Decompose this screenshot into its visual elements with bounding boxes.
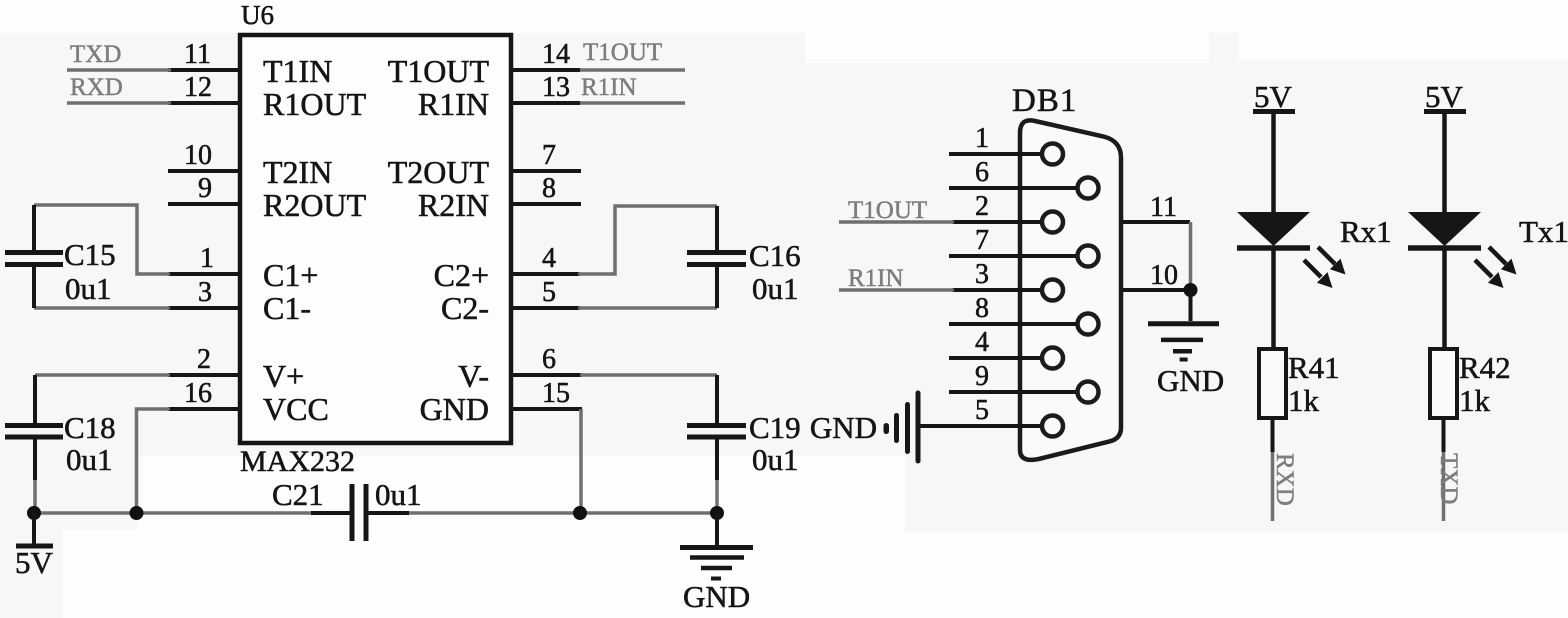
svg-text:R1IN: R1IN bbox=[581, 74, 637, 101]
svg-text:15: 15 bbox=[542, 378, 570, 409]
svg-text:RXD: RXD bbox=[70, 74, 123, 101]
svg-text:R1IN: R1IN bbox=[848, 265, 904, 292]
svg-text:TXD: TXD bbox=[70, 41, 121, 68]
svg-text:11: 11 bbox=[184, 39, 211, 70]
svg-text:1k: 1k bbox=[1288, 383, 1320, 418]
svg-text:14: 14 bbox=[542, 39, 570, 70]
svg-text:T1OUT: T1OUT bbox=[388, 53, 490, 89]
svg-text:R2OUT: R2OUT bbox=[263, 187, 367, 223]
svg-text:RXD: RXD bbox=[1271, 453, 1298, 506]
svg-text:1k: 1k bbox=[1459, 383, 1491, 418]
svg-text:6: 6 bbox=[542, 344, 556, 375]
svg-text:13: 13 bbox=[542, 72, 570, 103]
svg-text:11: 11 bbox=[1150, 192, 1177, 223]
svg-text:8: 8 bbox=[975, 293, 989, 324]
svg-text:R2IN: R2IN bbox=[418, 187, 489, 223]
svg-text:9: 9 bbox=[198, 173, 212, 204]
svg-text:C1+: C1+ bbox=[263, 257, 318, 293]
svg-text:0u1: 0u1 bbox=[752, 442, 799, 477]
svg-text:7: 7 bbox=[542, 140, 556, 171]
svg-text:C1-: C1- bbox=[263, 290, 311, 326]
svg-text:10: 10 bbox=[1150, 260, 1178, 291]
svg-text:VCC: VCC bbox=[263, 391, 329, 427]
svg-text:Tx1: Tx1 bbox=[1519, 214, 1568, 249]
svg-text:4: 4 bbox=[542, 243, 556, 274]
svg-text:TXD: TXD bbox=[1435, 453, 1462, 504]
svg-text:16: 16 bbox=[184, 378, 212, 409]
svg-text:3: 3 bbox=[975, 259, 989, 290]
svg-text:T1IN: T1IN bbox=[263, 53, 332, 89]
svg-text:C19: C19 bbox=[749, 410, 801, 445]
svg-text:12: 12 bbox=[184, 72, 212, 103]
svg-text:T2OUT: T2OUT bbox=[388, 154, 490, 190]
svg-text:C2-: C2- bbox=[441, 290, 489, 326]
svg-text:5: 5 bbox=[975, 395, 989, 426]
svg-text:Rx1: Rx1 bbox=[1340, 214, 1392, 249]
svg-text:R41: R41 bbox=[1288, 350, 1340, 385]
svg-text:8: 8 bbox=[542, 173, 556, 204]
svg-text:0u1: 0u1 bbox=[375, 477, 422, 512]
svg-text:9: 9 bbox=[975, 361, 989, 392]
svg-text:5V: 5V bbox=[1425, 79, 1464, 114]
svg-text:T1OUT: T1OUT bbox=[583, 39, 662, 66]
svg-text:C21: C21 bbox=[272, 477, 324, 512]
svg-text:C2+: C2+ bbox=[434, 257, 489, 293]
svg-text:GND: GND bbox=[420, 391, 489, 427]
svg-text:DB1: DB1 bbox=[1012, 83, 1077, 119]
svg-text:5V: 5V bbox=[15, 545, 54, 580]
svg-text:0u1: 0u1 bbox=[752, 271, 799, 306]
svg-text:1: 1 bbox=[975, 123, 989, 154]
svg-text:R1IN: R1IN bbox=[418, 86, 489, 122]
svg-text:1: 1 bbox=[200, 243, 214, 274]
svg-text:MAX232: MAX232 bbox=[240, 445, 355, 478]
svg-text:4: 4 bbox=[975, 327, 989, 358]
svg-text:GND: GND bbox=[1157, 363, 1224, 398]
svg-text:0u1: 0u1 bbox=[65, 271, 112, 306]
svg-text:10: 10 bbox=[184, 140, 212, 171]
svg-text:GND: GND bbox=[683, 579, 750, 614]
svg-text:V-: V- bbox=[458, 358, 489, 394]
svg-text:U6: U6 bbox=[241, 0, 274, 30]
svg-text:R42: R42 bbox=[1459, 350, 1511, 385]
svg-text:T1OUT: T1OUT bbox=[848, 197, 927, 224]
svg-text:C18: C18 bbox=[64, 410, 116, 445]
svg-text:7: 7 bbox=[975, 225, 989, 256]
svg-text:2: 2 bbox=[197, 344, 211, 375]
svg-text:C16: C16 bbox=[749, 238, 801, 273]
svg-text:0u1: 0u1 bbox=[66, 442, 113, 477]
svg-text:T2IN: T2IN bbox=[263, 154, 332, 190]
svg-text:GND: GND bbox=[810, 410, 877, 445]
svg-text:3: 3 bbox=[198, 277, 212, 308]
svg-text:5: 5 bbox=[542, 277, 556, 308]
svg-text:C15: C15 bbox=[64, 237, 116, 272]
svg-text:2: 2 bbox=[975, 191, 989, 222]
svg-text:R1OUT: R1OUT bbox=[263, 86, 367, 122]
svg-text:5V: 5V bbox=[1254, 79, 1293, 114]
svg-text:6: 6 bbox=[975, 157, 989, 188]
svg-text:V+: V+ bbox=[263, 358, 304, 394]
